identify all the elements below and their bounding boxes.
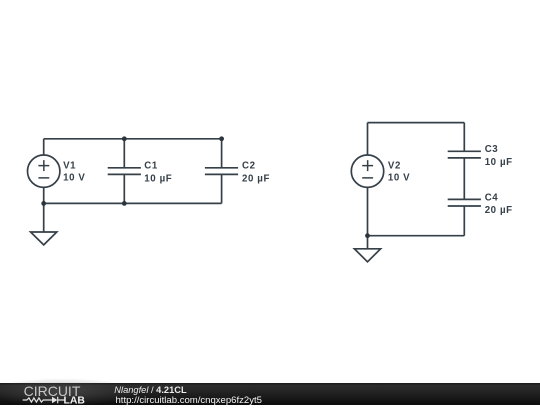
wire: C3 top lead: [463, 123, 465, 152]
node dot: C1 bottom junction: [122, 201, 127, 206]
node dot: V2 bottom junction: [365, 233, 370, 238]
label C1 / 10 µF: [144, 161, 172, 185]
svg-text:http://circuitlab.com/cnqxep6f: http://circuitlab.com/cnqxep6fz2yt5: [116, 395, 262, 405]
wire: V1 top lead to top rail: [43, 139, 45, 155]
footer bar: [0, 378, 540, 406]
wire: C3-C4 middle lead: [463, 158, 465, 200]
wire: C1 bottom lead: [123, 174, 125, 203]
svg-text:V2: V2: [388, 161, 401, 172]
wire: left ground lead: [43, 203, 45, 232]
capacitor C2: [205, 168, 238, 175]
footer URL: [116, 395, 262, 406]
wire: right ground lead: [367, 236, 369, 249]
voltage source V2: [351, 155, 383, 187]
label C2 / 20 µF: [242, 161, 270, 185]
CircuitLab logo: CIRCUIT wordmark: [24, 383, 81, 399]
node dot: C2 top junction: [219, 136, 224, 141]
svg-text:10 µF: 10 µF: [144, 174, 172, 185]
wire: left circuit top rail: [44, 138, 222, 140]
footer title: Nlangfel / 4.21CL: [114, 385, 187, 395]
svg-text:C3: C3: [485, 144, 499, 155]
svg-text:Nlangfel / 4.21CL: Nlangfel / 4.21CL: [114, 385, 187, 395]
svg-text:V1: V1: [63, 161, 76, 172]
node dot: C1 top junction: [122, 136, 127, 141]
CircuitLab logo: resistor squiggle and diode: [23, 397, 65, 404]
svg-text:20 µF: 20 µF: [485, 205, 513, 216]
wire: right circuit bottom rail: [368, 235, 465, 237]
label V2 / 10 V: [388, 161, 410, 184]
node dot: V1 bottom junction: [41, 201, 46, 206]
capacitor C4: [448, 199, 481, 206]
wire: V2 top lead to top rail: [367, 123, 369, 156]
wire: C2 bottom lead: [221, 174, 223, 203]
svg-text:20 µF: 20 µF: [242, 174, 270, 185]
capacitor C1: [108, 168, 141, 175]
svg-text:C1: C1: [144, 161, 158, 172]
svg-text:C4: C4: [485, 192, 499, 203]
svg-text:10 V: 10 V: [63, 172, 85, 183]
wire: C1 top lead: [123, 139, 125, 168]
ground (right): [354, 249, 380, 262]
label C3 / 10 µF: [485, 144, 513, 168]
svg-text:10 µF: 10 µF: [485, 157, 513, 168]
wire: V1 bottom lead: [43, 187, 45, 203]
ground (left): [31, 232, 57, 245]
wire: left circuit bottom rail: [44, 202, 222, 204]
voltage source V1: [28, 155, 60, 187]
svg-text:10 V: 10 V: [388, 172, 410, 183]
wire: C4 bottom lead: [463, 206, 465, 236]
label C4 / 20 µF: [485, 192, 513, 216]
wire: right circuit top rail: [368, 122, 465, 124]
CircuitLab logo: LAB wordmark: [64, 396, 86, 407]
wire: V2 bottom lead: [367, 187, 369, 235]
svg-text:LAB: LAB: [64, 396, 86, 405]
label V1 / 10 V: [63, 161, 85, 184]
capacitor C3: [448, 151, 481, 158]
wire: C2 top lead: [221, 139, 223, 168]
svg-text:C2: C2: [242, 161, 256, 172]
